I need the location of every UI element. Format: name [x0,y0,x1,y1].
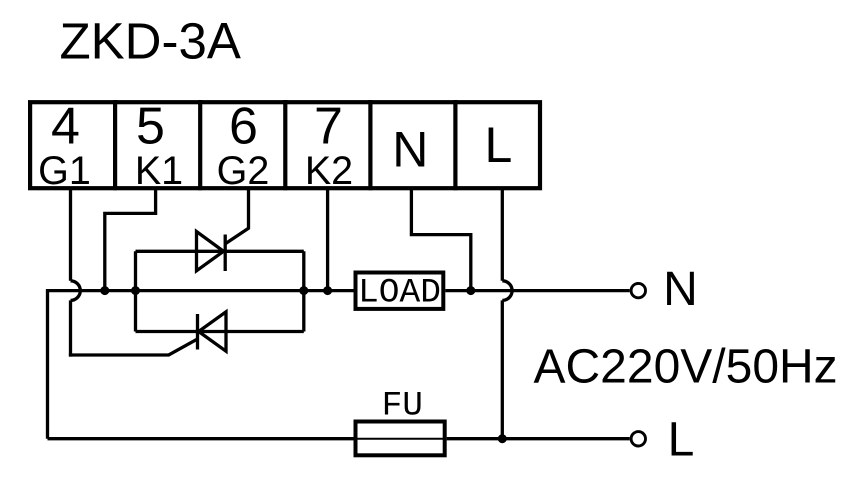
fuse FU through-wire [354,438,447,440]
terminal block divider N/L [453,100,457,190]
wire N rail left section [48,291,354,439]
svg-text:4: 4 [51,98,80,156]
wire G1 upper segment (terminal 4 down to hop) [69,187,72,281]
junction dot N-wire/rail [466,286,475,295]
junction dot K2/rail [323,286,332,295]
terminal block divider 6/7 [283,100,287,190]
wire G1 horizontal run to SCR2 gate [69,339,198,355]
wire L line left section [48,437,354,440]
terminal block divider 5/6 [198,100,202,190]
wire G1 lower segment [69,300,72,356]
terminal circle L [631,432,645,446]
svg-text:L: L [484,117,512,173]
thyristor SCR1 triangle [197,232,224,271]
wire hop (G1 wire jumps N rail) [71,281,81,301]
svg-text:6: 6 [229,98,258,156]
thyristor SCR2 triangle [199,312,226,351]
svg-text:G2: G2 [217,149,270,193]
terminal block TB1 outer box [30,102,540,188]
load box [356,273,444,309]
wire hop (L wire jumps N rail) [502,281,512,301]
wire K2 (terminal 7 down to rail) [326,187,329,291]
wire SCR loop bottom branch [136,330,304,333]
svg-text:7: 7 [314,98,343,156]
svg-text:N: N [392,122,428,178]
svg-text:FU: FU [382,386,423,425]
wire K1 (terminal 5 down, left, down to rail) [105,187,156,291]
svg-text:K2: K2 [305,149,353,193]
wire SCR loop top branch [136,250,304,253]
junction dot loop-right/rail [299,286,308,295]
terminal block divider 7/N [368,100,372,190]
junction dot L-wire/L-line [498,434,507,443]
fuse FU body [356,422,445,456]
svg-text:N: N [663,263,698,316]
wire L upper segment (terminal L down to hop) [501,187,504,281]
thyristor SCR1 cathode bar [224,235,227,272]
thyristor SCR2 cathode bar [196,314,199,350]
wire N terminal (down, right, down to rail) [411,187,470,291]
terminal circle N [631,283,645,297]
terminal block divider 4/5 [113,100,117,190]
svg-text:LOAD: LOAD [358,274,441,313]
wire L line right section [447,437,630,440]
svg-text:G1: G1 [38,149,91,193]
junction dot K1/rail [100,286,109,295]
svg-text:L: L [668,414,695,467]
junction dot loop-left/rail [131,286,140,295]
wire SCR loop right vertical [302,251,305,331]
wire L lower segment (down to L line) [501,300,504,438]
wire G2 (terminal 6 down to SCR1 gate) [225,187,248,244]
svg-text:AC220V/50Hz: AC220V/50Hz [534,340,838,393]
wire N rail right section (LOAD to N circle) [445,289,629,292]
wire SCR loop left vertical [134,251,137,331]
svg-text:5: 5 [136,98,165,156]
svg-text:ZKD-3A: ZKD-3A [60,13,241,70]
svg-text:K1: K1 [135,149,183,193]
